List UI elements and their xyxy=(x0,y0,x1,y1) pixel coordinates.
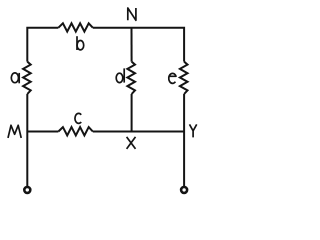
node X label xyxy=(127,137,136,149)
wire: resistor c to node X xyxy=(93,131,132,133)
label d xyxy=(116,68,124,82)
label c xyxy=(75,113,81,123)
label e xyxy=(168,73,176,83)
wire: node X to node Y xyxy=(132,131,185,133)
wire: node Y down to right terminal xyxy=(183,132,185,188)
wire: resistor d to node X xyxy=(131,94,133,132)
resistor b xyxy=(58,23,92,31)
node N label xyxy=(128,8,136,20)
wire: resistor b to node N xyxy=(93,27,132,29)
wire: node M to resistor c xyxy=(27,131,58,133)
resistor a xyxy=(23,62,31,94)
label a xyxy=(11,73,19,83)
wire: resistor a to node M xyxy=(26,94,28,132)
wire: node N down to resistor d xyxy=(131,28,133,62)
label b xyxy=(77,36,84,50)
wire: resistor e to node Y xyxy=(183,94,185,132)
wire: node N right to top-right corner and down to resistor e xyxy=(132,28,185,62)
node Y label xyxy=(190,124,197,137)
resistor d xyxy=(127,62,135,94)
wire: resistor a up to top-left corner and right to resistor b xyxy=(27,28,58,62)
wire: node M down to left terminal xyxy=(26,132,28,188)
left terminal xyxy=(24,187,30,193)
right terminal xyxy=(181,187,187,193)
resistor c xyxy=(58,127,92,135)
resistor e xyxy=(180,62,188,94)
node M label xyxy=(8,125,21,138)
